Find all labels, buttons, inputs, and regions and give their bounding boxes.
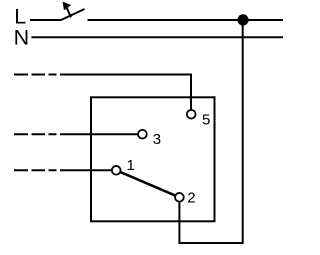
svg-text:N: N (14, 26, 30, 50)
svg-text:5: 5 (202, 112, 210, 129)
svg-text:1: 1 (127, 157, 135, 174)
svg-text:3: 3 (153, 131, 161, 148)
svg-text:2: 2 (187, 189, 195, 206)
